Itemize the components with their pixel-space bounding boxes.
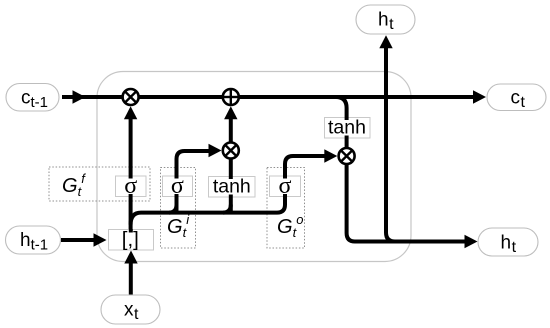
wire: forget-gate vertical through sigma1 up to multiply1 bbox=[129, 118, 133, 231]
wire junction fillet at tanh1 riser bbox=[223, 205, 231, 213]
multiply node 3 (output gate) bbox=[339, 148, 355, 164]
cell body rounded rectangle bbox=[97, 72, 411, 262]
node h_t bottom bubble bbox=[478, 228, 538, 256]
wire: input-gate riser through sigma2 with corner toward multiply2 bbox=[177, 151, 215, 213]
wire stub into sigma3 box top bbox=[283, 176, 287, 179]
arrowhead into multiply1 bbox=[124, 106, 137, 119]
arrowhead into add1 bbox=[224, 106, 237, 119]
wire stub into sigma3 box bottom bbox=[283, 194, 287, 197]
wire: branch from cell line down through tanh2 to multiply3 bbox=[336, 97, 347, 149]
add node 1 on cell line bbox=[223, 89, 239, 105]
multiply node 1 (forget) on cell line bbox=[123, 89, 139, 105]
node h_t top bubble bbox=[356, 5, 415, 34]
dashed box G_t^i bbox=[161, 168, 196, 249]
wire stub into tanh1 box bottom bbox=[229, 195, 233, 198]
multiply node 2 (input x candidate) bbox=[223, 143, 239, 159]
dashed box G_t^o bbox=[267, 168, 305, 249]
arrowhead into multiply3 bbox=[324, 149, 337, 162]
wire stub into tanh1 box top bbox=[229, 176, 233, 179]
box tanh2 (cell output activation) bbox=[325, 118, 371, 139]
wire stub into tanh2 box top bbox=[345, 117, 349, 120]
arrowhead on c_(t-1) line bbox=[73, 90, 86, 103]
box sigma1 (forget gate) bbox=[116, 176, 147, 197]
node x_t bubble bbox=[101, 295, 160, 324]
box sigma3 (output gate) bbox=[270, 176, 301, 197]
wire stub into sigma1 box bottom bbox=[129, 194, 133, 197]
wire: branch up from h line crossing cell line to top h_t bbox=[386, 47, 395, 242]
node c_t bubble bbox=[487, 84, 546, 111]
wire stub into concat box top bbox=[129, 229, 133, 233]
wire stub into sigma2 box top bbox=[175, 176, 179, 179]
box sigma2 (input gate) bbox=[163, 176, 193, 197]
arrowhead into multiply2 bbox=[209, 144, 222, 157]
node c_(t-1) bubble bbox=[6, 84, 59, 112]
arrowhead into bottom h_t bbox=[465, 235, 478, 248]
box tanh1 (candidate) bbox=[209, 177, 256, 198]
arrowhead into concat from h_(t-1) bbox=[94, 233, 107, 246]
wire: h_(t-1) into concat box bbox=[61, 238, 97, 242]
wire stub into sigma2 box bottom bbox=[175, 194, 179, 197]
wire: candidate riser through tanh1 up through multiply2 to add1 bbox=[229, 119, 233, 213]
dashed box G_t^f bbox=[49, 167, 150, 201]
arrowhead into concat from x_t bbox=[124, 251, 137, 264]
wire: multiply3 output down, corner right to bottom h_t bbox=[347, 163, 469, 242]
arrowhead into c_t bbox=[473, 90, 486, 103]
wire stub into sigma1 box top bbox=[129, 176, 133, 179]
box concat [,] bbox=[109, 230, 154, 251]
wire stub into tanh2 box bottom bbox=[345, 136, 349, 139]
wire: concat output horizontal with corner from vertical, to sigma3 riser and corner to multiply3 arrow bbox=[131, 156, 330, 225]
arrowhead into top h_t bbox=[379, 35, 392, 48]
wire: x_t up into concat box bbox=[129, 261, 133, 297]
node h_(t-1) bubble bbox=[6, 226, 61, 254]
wire: main cell-state line c_(t-1) to c_t bbox=[62, 95, 477, 99]
wire junction fillet at sigma2 riser bbox=[169, 205, 177, 213]
